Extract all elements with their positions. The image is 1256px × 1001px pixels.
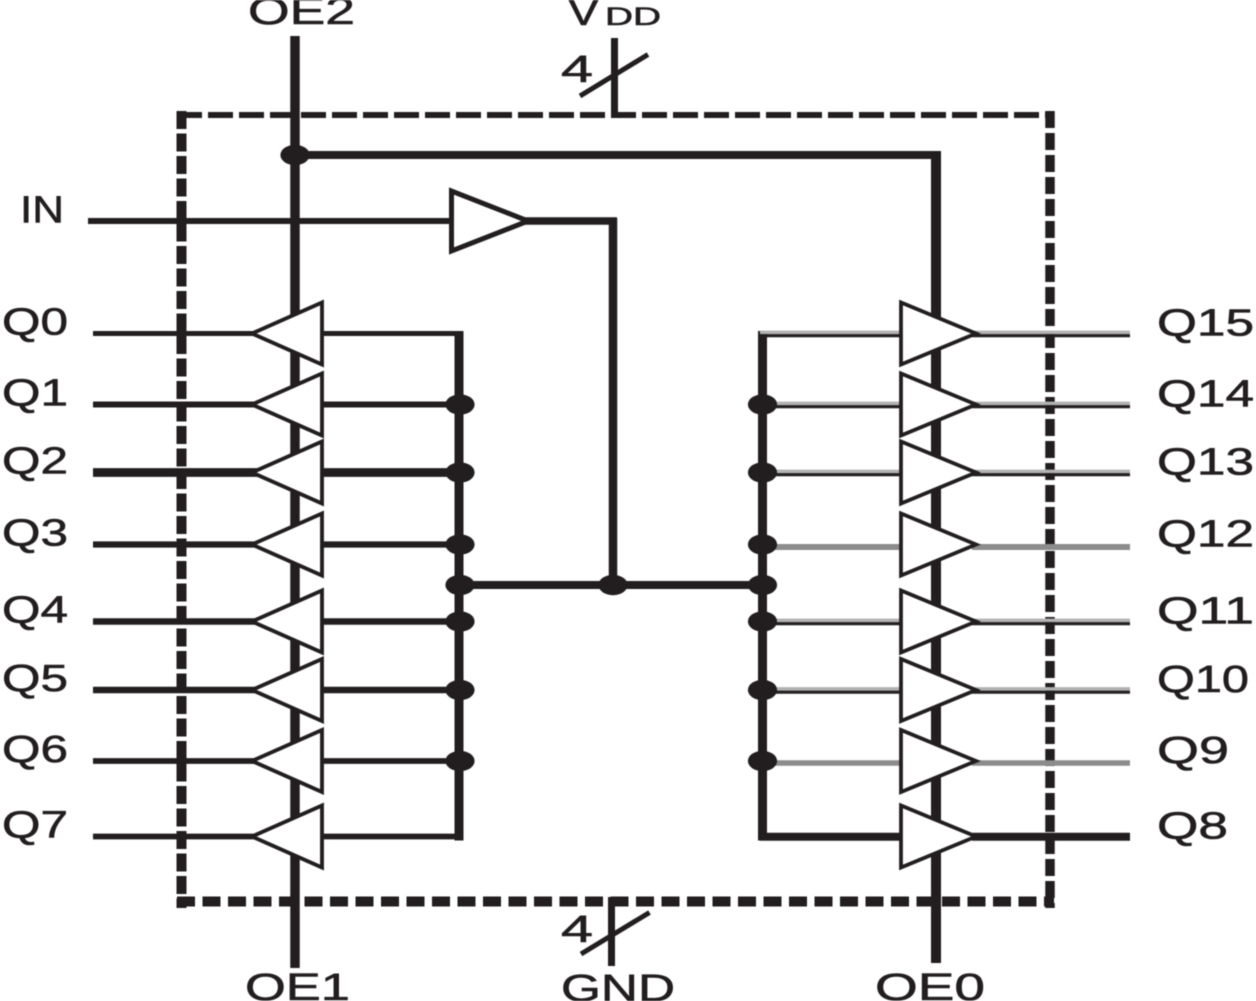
svg-text:Q2: Q2: [2, 441, 68, 483]
buffer for Q3 (points left): [252, 514, 322, 576]
wire: Q6 output line (left): [93, 758, 258, 764]
buffer for Q8 (points right): [901, 806, 976, 868]
IC boundary dashed box (top edge): [177, 112, 1054, 118]
junction dot right bus at Q11 row: [748, 611, 777, 631]
wire: Q11 buffer input segment from bus: [760, 619, 905, 623]
svg-text:GND: GND: [561, 968, 675, 1001]
svg-text:OE0: OE0: [875, 967, 985, 1001]
junction dot at OE2 rail (295,155): [280, 145, 309, 165]
wire: Q1 buffer input segment from bus: [320, 402, 463, 408]
bus-width slash at VDD (4 bits): [580, 55, 648, 97]
svg-text:Q4: Q4: [2, 590, 68, 632]
junction dot right bus at Q13 row: [748, 462, 777, 482]
buffer for Q5 (points left): [252, 659, 322, 721]
wire: Q0 output line (left): [93, 331, 258, 336]
junction dot left bus at Q1 row: [445, 394, 474, 414]
buffer U-IN (input buffer): [452, 191, 529, 251]
buffer for Q2 (points left): [252, 442, 322, 504]
wire: Q9 buffer input segment from bus: [760, 760, 905, 766]
junction dot right bus at Q14 row: [748, 394, 777, 414]
wire: OE0 vertical rail x=936: [931, 151, 941, 963]
junction dot left bus at Q3 row: [445, 534, 474, 554]
svg-text:Q10: Q10: [1157, 659, 1249, 701]
buffer for Q1 (points left): [252, 374, 322, 436]
svg-text:OE2: OE2: [248, 0, 355, 33]
wire: Q14 output line (right): [972, 402, 1130, 406]
svg-text:4: 4: [561, 49, 593, 91]
svg-text:Q12: Q12: [1157, 513, 1254, 555]
wire: IN input line: [88, 218, 455, 224]
buffer for Q4 (points left): [252, 591, 322, 653]
wire: Q12 buffer input segment from bus: [760, 544, 905, 550]
buffer for Q15 (points right): [901, 303, 976, 365]
junction dot at distribution node (613,585): [598, 575, 627, 595]
IC boundary dashed box (left edge): [177, 111, 187, 908]
wire: Q3 buffer input segment from bus: [320, 541, 463, 547]
junction dot right bus at Q9 row: [748, 751, 777, 771]
wire: Q3 output line (left): [93, 541, 258, 547]
wire: Q5 output line (left): [93, 687, 258, 694]
wire: Q8 buffer input segment from bus: [760, 833, 905, 841]
wire: Q1 output line (left): [93, 402, 258, 408]
buffer for Q11 (points right): [901, 591, 976, 653]
svg-text:Q5: Q5: [2, 658, 68, 700]
wire: Q4 buffer input segment from bus: [320, 618, 463, 625]
buffer for Q6 (points left): [252, 730, 322, 792]
wire: vertical drop from IN buffer to distribution node: [609, 218, 618, 585]
wire: Q7 output line (left): [93, 834, 258, 840]
wire: Q7 buffer input segment from bus: [320, 834, 463, 840]
wire: central distribution line y=585: [459, 581, 763, 589]
svg-text:Q3: Q3: [2, 513, 68, 555]
buffer for Q12 (points right): [901, 514, 976, 576]
wire: GND stub: [608, 897, 615, 966]
buffer for Q0 (points left): [252, 303, 322, 365]
wire: Q2 buffer input segment from bus: [320, 468, 463, 477]
svg-text:V: V: [568, 0, 600, 34]
svg-text:Q8: Q8: [1157, 805, 1228, 847]
buffer for Q9 (points right): [901, 730, 976, 792]
wire: Q10 output line (right): [972, 687, 1130, 691]
junction dot right bus at Q10 row: [748, 680, 777, 700]
buffer for Q7 (points left): [252, 806, 322, 868]
wire: Q13 output line (right): [972, 470, 1130, 474]
bus-width slash at GND (4 bits): [581, 913, 650, 955]
buffer for Q10 (points right): [901, 659, 976, 721]
wire: right input bus x=762.5: [758, 331, 767, 841]
wire: OE enable rail horizontal y=155: [295, 151, 941, 159]
svg-text:DD: DD: [605, 3, 661, 31]
svg-text:Q11: Q11: [1157, 590, 1254, 632]
svg-text:IN: IN: [20, 190, 64, 232]
wire: IN buffer output segment: [525, 217, 617, 225]
wire: Q11 output line (right): [972, 619, 1130, 623]
IC boundary dashed box (right edge): [1045, 111, 1055, 908]
buffer for Q13 (points right): [901, 442, 976, 504]
junction dot right bus at Q12 row: [748, 534, 777, 554]
svg-text:4: 4: [561, 909, 593, 951]
wire: Q12 output line (right): [972, 544, 1130, 550]
wire: left input bus x=459: [455, 331, 464, 841]
wire: OE2-OE1 vertical rail x=295: [290, 36, 300, 968]
svg-text:Q0: Q0: [2, 302, 68, 344]
junction dot left bus at Q5 row: [445, 680, 474, 700]
wire: Q4 output line (left): [93, 618, 258, 625]
svg-text:Q13: Q13: [1157, 441, 1254, 483]
wire: Q8 output line (right): [972, 833, 1130, 841]
wire: Q13 buffer input segment from bus: [760, 470, 905, 474]
wire: Q9 output line (right): [972, 760, 1130, 766]
svg-text:Q1: Q1: [2, 373, 68, 415]
junction dot left bus at Q4 row: [445, 611, 474, 631]
buffer for Q14 (points right): [901, 374, 976, 436]
wire: Q2 output line (left): [93, 468, 258, 477]
svg-text:Q9: Q9: [1157, 730, 1229, 772]
junction dot right bus at center row: [748, 575, 777, 595]
svg-text:Q7: Q7: [2, 805, 68, 847]
junction dot left bus at Q2 row: [445, 462, 474, 482]
junction dot left bus at Q6 row: [445, 751, 474, 771]
wire: Q15 output line (right): [972, 331, 1130, 335]
IC boundary dashed box (bottom edge): [177, 897, 1054, 907]
svg-text:Q15: Q15: [1157, 302, 1254, 344]
wire: Q14 buffer input segment from bus: [760, 402, 905, 406]
svg-text:OE1: OE1: [245, 967, 350, 1001]
svg-text:Q6: Q6: [2, 729, 68, 771]
wire: Q5 buffer input segment from bus: [320, 687, 463, 694]
wire: Q10 buffer input segment from bus: [760, 687, 905, 691]
junction dot left bus at center row: [445, 575, 474, 595]
svg-text:Q14: Q14: [1157, 373, 1254, 415]
wire: Q6 buffer input segment from bus: [320, 758, 463, 764]
wire: Q0 buffer input segment from bus: [320, 331, 463, 336]
wire: Q15 buffer input segment from bus: [760, 331, 905, 335]
wire: VDD stub: [611, 38, 618, 116]
